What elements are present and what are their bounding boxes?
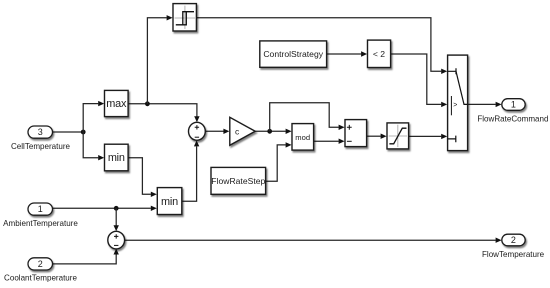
- Sum2 circle (ambient minus coolant): [108, 231, 125, 249]
- wire relay output to switch input 1: [197, 18, 442, 72]
- svg-text:1: 1: [38, 204, 43, 214]
- svg-text:AmbientTemperature: AmbientTemperature: [3, 219, 78, 228]
- switch input 3 marker: [448, 136, 456, 143]
- switch block: [448, 55, 468, 151]
- Saturation block: [387, 123, 409, 149]
- switch control port separator: [450, 96, 452, 115]
- wire ControlStrategy output to compare block: [327, 53, 362, 55]
- wire mod output to Subtract input 2: [314, 140, 339, 142]
- wire junction C down to Sum2 top input: [115, 208, 117, 225]
- gain c: [230, 117, 255, 145]
- wire FlowRateStep output to mod input 2: [266, 145, 286, 181]
- wire junction A down to min1 input: [83, 132, 98, 158]
- wire switch output to FlowRateCommand port: [468, 103, 496, 105]
- wire max output to junction B and down into Sum1: [128, 104, 197, 117]
- svg-text:2: 2: [511, 235, 516, 245]
- wire from CellTemperature port to junction A: [53, 131, 84, 133]
- min MinMax block 2: [157, 188, 182, 215]
- input port 2 CoolantTemperature: [28, 258, 53, 270]
- mod block: [292, 124, 314, 151]
- wire Saturation output to switch input 3: [409, 135, 442, 137]
- wire junction D up over to Subtract input 1: [270, 103, 339, 132]
- svg-text:FlowRateStep: FlowRateStep: [211, 176, 265, 186]
- compare block < 2: [368, 40, 391, 67]
- wire junction B up to relay input: [147, 18, 166, 104]
- Constant FlowRateStep: [211, 167, 266, 194]
- svg-text:CellTemperature: CellTemperature: [11, 142, 71, 151]
- node B junction dot: [145, 101, 150, 106]
- wire Subtract output to Saturation input: [367, 135, 381, 137]
- wire CoolantTemperature port to Sum2 bottom input: [53, 254, 117, 264]
- svg-text:FlowTemperature: FlowTemperature: [482, 250, 545, 259]
- svg-text:< 2: < 2: [373, 49, 385, 59]
- wire AmbientTemperature port to min2 input 2: [53, 207, 151, 209]
- svg-text:3: 3: [38, 127, 43, 137]
- input port 3 CellTemperature: [28, 126, 53, 138]
- Constant ControlStrategy: [260, 41, 327, 67]
- svg-text:max: max: [106, 98, 127, 110]
- switch input 1 marker: [448, 68, 456, 74]
- node C junction dot: [114, 206, 119, 211]
- wire Sum2 output to FlowTemperature port: [125, 239, 496, 241]
- relay block: [173, 4, 196, 31]
- node A junction dot: [81, 130, 86, 135]
- node D junction dot: [267, 129, 272, 134]
- wire compare block output to switch input 2: [391, 54, 442, 104]
- switch diagonal arm: [456, 71, 468, 104]
- output port 1 FlowRateCommand: [502, 99, 525, 111]
- wire gain output to junction D and mod input 1: [255, 130, 286, 132]
- wire Sum1 output to gain input: [205, 130, 223, 132]
- svg-text:mod: mod: [295, 133, 310, 142]
- wire junction A up to max input: [83, 104, 98, 132]
- Sum1 circle (max minus min): [189, 122, 206, 140]
- svg-text:CoolantTemperature: CoolantTemperature: [4, 273, 77, 282]
- svg-text:ControlStrategy: ControlStrategy: [263, 49, 323, 59]
- min MinMax block 1: [105, 144, 129, 171]
- max MinMax block: [105, 90, 129, 116]
- svg-text:>: >: [453, 102, 457, 109]
- svg-text:2: 2: [38, 259, 43, 269]
- wire min1 output to min2 input 1: [128, 158, 151, 195]
- svg-text:FlowRateCommand: FlowRateCommand: [477, 115, 548, 124]
- wire min2 output up to Sum1 bottom input: [182, 146, 197, 201]
- input port 1 AmbientTemperature: [28, 203, 53, 215]
- output port 2 FlowTemperature: [502, 234, 525, 246]
- svg-text:min: min: [161, 196, 178, 208]
- svg-text:min: min: [108, 152, 125, 164]
- svg-text:1: 1: [511, 100, 516, 110]
- Subtract block: [345, 120, 367, 147]
